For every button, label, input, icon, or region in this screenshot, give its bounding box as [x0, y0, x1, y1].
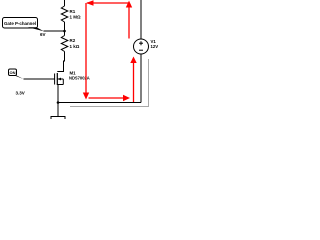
svg-text:12V: 12V — [151, 44, 159, 49]
resistor R2 — [61, 36, 68, 52]
svg-text:1 kΩ: 1 kΩ — [70, 44, 80, 49]
red current annotation: top right vertical segment — [128, 3, 130, 39]
red arrowhead down — [83, 93, 89, 100]
ground — [57, 103, 59, 117]
svg-text:Gate P-channel: Gate P-channel — [4, 21, 36, 26]
junction dot at source/bottom wire — [57, 101, 60, 104]
red current annotation: top horizontal wire segment — [87, 2, 129, 4]
wire: 6V node horizontal — [44, 30, 65, 32]
red current annotation: left vertical segment — [85, 3, 87, 93]
callout ON — [9, 69, 24, 79]
wire: top-left vertical from top edge down to R1 — [64, 0, 66, 6]
page border (gray, partially visible bottom-right) — [70, 59, 149, 107]
svg-text:ON: ON — [10, 70, 16, 75]
svg-text:1 MΩ: 1 MΩ — [70, 15, 82, 20]
svg-text:3.3V: 3.3V — [16, 91, 25, 96]
transistor M1 body-source connector — [62, 79, 64, 85]
wire: bottom horizontal — [58, 102, 141, 104]
wire: right vertical above V1 — [140, 0, 142, 39]
svg-text:R2: R2 — [70, 38, 76, 43]
transistor M1 channel bar — [56, 73, 58, 85]
svg-text:R1: R1 — [70, 9, 76, 14]
wire: right vertical below V1 — [140, 54, 142, 103]
callout Gate P-channel — [3, 18, 44, 32]
red arrowhead up bottom-right — [130, 57, 136, 64]
source V1 — [134, 39, 149, 54]
wire: R2 bottom to MOSFET drain — [57, 52, 64, 72]
red arrowhead up at top — [126, 1, 132, 8]
transistor M1 body line with arrow — [57, 78, 63, 80]
wire: R1 bottom to R2 top — [64, 22, 66, 36]
svg-text:6V: 6V — [40, 32, 46, 37]
red current annotation: bottom right vertical segment — [133, 63, 135, 102]
red current annotation: bottom horizontal segment — [89, 97, 124, 99]
wire: source down — [57, 85, 59, 103]
node 6V junction dot — [63, 30, 66, 33]
transistor M1 gate bar — [54, 74, 56, 85]
resistor R1 — [61, 6, 68, 22]
wire: gate lead — [24, 78, 55, 80]
red arrowhead left — [86, 0, 94, 6]
transistor M1 source line — [57, 84, 63, 86]
red arrowhead right — [123, 95, 130, 101]
